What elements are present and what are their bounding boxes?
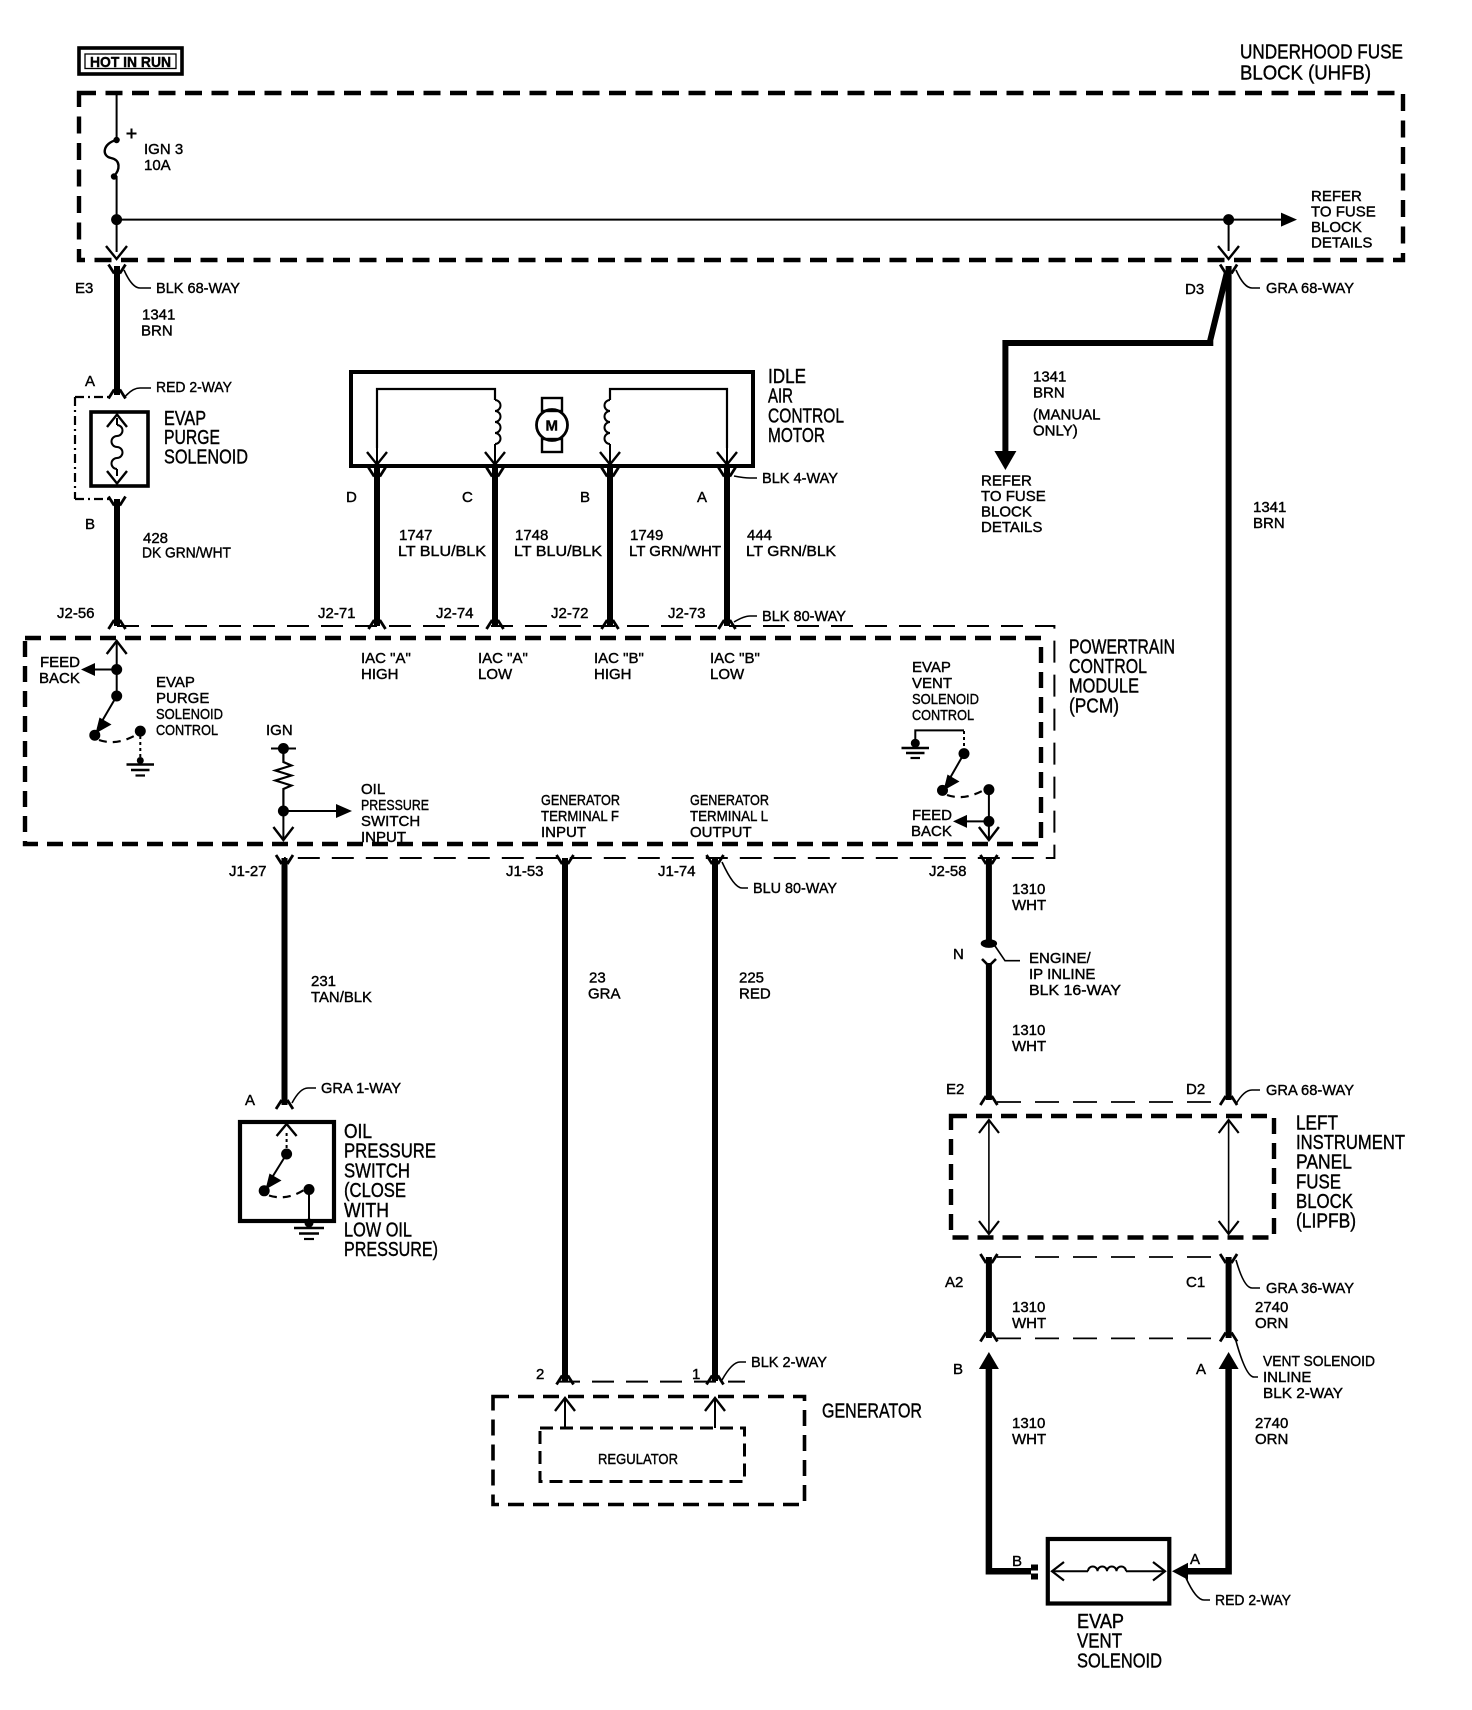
evap vent solenoid coil xyxy=(1052,1562,1165,1581)
svg-text:BRN: BRN xyxy=(1253,515,1285,532)
svg-text:A: A xyxy=(245,1092,255,1109)
wire A (444) xyxy=(724,466,730,626)
svg-text:GRA 36-WAY: GRA 36-WAY xyxy=(1266,1280,1354,1297)
wire fuse to junction xyxy=(116,176,118,252)
connector A (GRA 1-WAY) mark xyxy=(245,1080,401,1109)
svg-text:BLOCK: BLOCK xyxy=(1311,219,1362,236)
svg-text:D: D xyxy=(346,489,357,506)
svg-text:(MANUAL: (MANUAL xyxy=(1033,407,1101,424)
svg-text:444: 444 xyxy=(747,527,772,544)
svg-text:WHT: WHT xyxy=(1012,1038,1046,1055)
svg-text:BRN: BRN xyxy=(1033,385,1065,402)
wire 1310 WHT B to evap vent solenoid xyxy=(979,1352,1046,1580)
BLK 2-WAY label xyxy=(722,1362,746,1380)
ground (evap purge control) xyxy=(127,757,155,776)
svg-text:E2: E2 xyxy=(946,1081,964,1098)
wire from box top to fuse xyxy=(116,94,118,140)
svg-text:(LIPFB): (LIPFB) xyxy=(1296,1211,1356,1233)
svg-text:BLK 16-WAY: BLK 16-WAY xyxy=(1029,982,1121,999)
svg-text:225: 225 xyxy=(739,970,764,987)
wire 231 TAN/BLK J1-27 to oil pressure switch xyxy=(282,858,288,1105)
svg-text:FEED: FEED xyxy=(912,807,952,824)
generator connector row line xyxy=(558,1381,745,1383)
evap purge solenoid coil xyxy=(107,415,127,484)
wire 225 RED J1-74 to generator xyxy=(712,858,718,1381)
svg-text:CONTROL: CONTROL xyxy=(768,405,844,427)
svg-text:BACK: BACK xyxy=(39,670,80,687)
evap vent solenoid label xyxy=(1077,1611,1162,1672)
svg-text:1310: 1310 xyxy=(1012,881,1045,898)
IAC motor M xyxy=(537,398,568,452)
svg-text:B: B xyxy=(953,1361,963,1378)
svg-text:VENT: VENT xyxy=(912,675,952,692)
svg-text:EVAP: EVAP xyxy=(912,659,951,676)
svg-text:23: 23 xyxy=(589,970,606,987)
regulator dashed box xyxy=(540,1428,745,1482)
svg-text:BLOCK (UHFB): BLOCK (UHFB) xyxy=(1240,63,1371,85)
svg-text:231: 231 xyxy=(311,973,336,990)
node junction left xyxy=(111,214,122,225)
svg-text:1310: 1310 xyxy=(1012,1299,1045,1316)
svg-text:VENT SOLENOID: VENT SOLENOID xyxy=(1263,1353,1375,1370)
svg-text:SOLENOID: SOLENOID xyxy=(1077,1650,1162,1672)
svg-text:1747: 1747 xyxy=(399,527,432,544)
svg-text:GENERATOR: GENERATOR xyxy=(690,792,769,809)
svg-text:LT BLU/BLK: LT BLU/BLK xyxy=(514,543,602,560)
evap vent solenoid control label xyxy=(912,659,979,724)
connector B/A marks and row (vent solenoid inline) xyxy=(953,1333,1375,1403)
svg-text:BLK 2-WAY: BLK 2-WAY xyxy=(1263,1385,1343,1402)
svg-text:GENERATOR: GENERATOR xyxy=(822,1401,922,1423)
svg-text:TERMINAL F: TERMINAL F xyxy=(541,808,619,825)
svg-text:ORN: ORN xyxy=(1255,1315,1288,1332)
svg-text:IDLE: IDLE xyxy=(768,366,806,388)
svg-text:CONTROL: CONTROL xyxy=(156,722,218,739)
connector A mark xyxy=(85,373,232,399)
svg-text:1341: 1341 xyxy=(1033,369,1066,386)
svg-text:E3: E3 xyxy=(75,280,93,297)
svg-text:GRA 68-WAY: GRA 68-WAY xyxy=(1266,280,1354,297)
LIPFB dashed box xyxy=(951,1116,1274,1238)
svg-text:D3: D3 xyxy=(1185,281,1204,298)
svg-text:UNDERHOOD FUSE: UNDERHOOD FUSE xyxy=(1240,42,1403,64)
svg-text:BLK 4-WAY: BLK 4-WAY xyxy=(762,470,838,487)
PCM label xyxy=(1069,637,1175,718)
vent feedback node xyxy=(911,790,999,840)
idle air control motor box xyxy=(351,372,753,466)
connector E3 mark xyxy=(75,265,240,298)
wire 23 GRA J1-53 to generator xyxy=(562,858,568,1381)
svg-text:INPUT: INPUT xyxy=(361,829,406,846)
wire 2740 ORN C1 to A xyxy=(1226,1257,1232,1338)
dash-dot bracket around evap purge solenoid xyxy=(75,397,110,499)
svg-text:(PCM): (PCM) xyxy=(1069,695,1119,717)
LIPFB double arrow right xyxy=(1219,1120,1239,1234)
wire 2740 ORN A to evap vent solenoid xyxy=(1172,1352,1288,1580)
svg-text:BACK: BACK xyxy=(911,823,952,840)
wire C (1748) xyxy=(492,466,498,626)
svg-text:A: A xyxy=(697,489,707,506)
svg-text:IP INLINE: IP INLINE xyxy=(1029,966,1095,983)
svg-text:HIGH: HIGH xyxy=(361,666,399,683)
svg-text:2: 2 xyxy=(536,1366,544,1383)
svg-text:BLK 2-WAY: BLK 2-WAY xyxy=(751,1354,827,1371)
svg-text:ENGINE/: ENGINE/ xyxy=(1029,950,1092,967)
evap vent solenoid box xyxy=(1048,1539,1170,1604)
svg-text:EVAP: EVAP xyxy=(156,674,195,691)
svg-text:(CLOSE: (CLOSE xyxy=(344,1180,406,1202)
IAC label xyxy=(768,366,844,447)
wire 428 DK GRN/WHT xyxy=(114,499,120,626)
svg-text:J2-71: J2-71 xyxy=(318,605,356,622)
svg-text:IAC "A": IAC "A" xyxy=(478,650,528,667)
svg-text:LOW: LOW xyxy=(710,666,745,683)
svg-text:DETAILS: DETAILS xyxy=(981,519,1042,536)
wire 1341 BRN E3 to A xyxy=(114,266,120,395)
fuse IGN 3 10A xyxy=(105,129,183,180)
svg-text:MOTOR: MOTOR xyxy=(768,425,825,447)
refer to fuse block details text (right) xyxy=(1311,188,1376,252)
svg-text:SOLENOID: SOLENOID xyxy=(164,446,248,468)
evap purge solenoid control label xyxy=(156,674,223,739)
svg-text:RED: RED xyxy=(739,986,771,1003)
horizontal wire across UHFB xyxy=(117,219,1229,221)
svg-text:J1-74: J1-74 xyxy=(658,863,696,880)
connector marks generator row xyxy=(557,1376,724,1385)
svg-text:A2: A2 xyxy=(945,1274,963,1291)
svg-text:REGULATOR: REGULATOR xyxy=(598,1451,678,1468)
svg-text:J2-73: J2-73 xyxy=(668,605,706,622)
svg-text:REFER: REFER xyxy=(1311,188,1362,205)
svg-text:ORN: ORN xyxy=(1255,1431,1288,1448)
wire 1310 WHT A2 to B xyxy=(986,1257,992,1338)
branch 1341 BRN (manual only) xyxy=(994,272,1227,470)
hot-in-run header box xyxy=(79,48,182,74)
svg-text:J1-27: J1-27 xyxy=(229,863,267,880)
IGN pullup xyxy=(266,722,352,840)
J2 connector marks on row xyxy=(369,620,736,629)
svg-text:BRN: BRN xyxy=(141,323,173,340)
refer to fuse block details (manual branch) xyxy=(981,473,1046,537)
UHFB label xyxy=(1240,42,1403,85)
connector C mark xyxy=(462,468,504,507)
inline connector N (ENGINE/IP INLINE) xyxy=(953,939,1121,999)
generator terminal L output label xyxy=(690,792,769,841)
svg-text:DETAILS: DETAILS xyxy=(1311,235,1372,252)
LIPFB label xyxy=(1296,1113,1405,1233)
svg-text:CONTROL: CONTROL xyxy=(912,707,974,724)
RED 2-WAY label xyxy=(1186,1578,1210,1600)
svg-text:HIGH: HIGH xyxy=(594,666,632,683)
svg-text:PRESSURE: PRESSURE xyxy=(344,1141,436,1163)
wire 1310 WHT inline to E2 xyxy=(986,963,992,1100)
svg-text:FEED: FEED xyxy=(40,654,80,671)
svg-text:LOW OIL: LOW OIL xyxy=(344,1220,412,1242)
svg-text:1749: 1749 xyxy=(630,527,663,544)
oil pressure switch input label xyxy=(361,781,429,846)
svg-text:WHT: WHT xyxy=(1012,1431,1046,1448)
svg-text:J2-56: J2-56 xyxy=(57,605,95,622)
svg-text:LT BLU/BLK: LT BLU/BLK xyxy=(398,543,486,560)
node junction right xyxy=(1223,214,1234,225)
svg-text:VENT: VENT xyxy=(1077,1631,1122,1653)
svg-text:INPUT: INPUT xyxy=(541,824,586,841)
svg-text:RED 2-WAY: RED 2-WAY xyxy=(1215,1592,1291,1609)
svg-text:EVAP: EVAP xyxy=(1077,1611,1124,1633)
svg-text:OUTPUT: OUTPUT xyxy=(690,824,752,841)
svg-text:B: B xyxy=(85,516,95,533)
connector A mark + BLK 4-WAY xyxy=(697,468,838,507)
svg-text:2740: 2740 xyxy=(1255,1299,1288,1316)
BLK 80-WAY label xyxy=(734,616,757,622)
connector J2-56 mark xyxy=(109,620,126,629)
svg-text:TO FUSE: TO FUSE xyxy=(981,488,1046,505)
ground (evap vent control) xyxy=(902,739,930,758)
svg-text:A: A xyxy=(1196,1361,1206,1378)
IAC channel labels xyxy=(361,650,760,683)
svg-text:BLOCK: BLOCK xyxy=(981,504,1032,521)
svg-text:10A: 10A xyxy=(144,157,171,174)
svg-text:C: C xyxy=(462,489,473,506)
svg-text:IGN 3: IGN 3 xyxy=(144,141,183,158)
svg-text:GRA 68-WAY: GRA 68-WAY xyxy=(1266,1082,1354,1099)
connector E2/D2 marks and row xyxy=(946,1081,1354,1105)
svg-text:J1-53: J1-53 xyxy=(506,863,544,880)
svg-text:1310: 1310 xyxy=(1012,1022,1045,1039)
svg-text:WHT: WHT xyxy=(1012,897,1046,914)
svg-text:J2-74: J2-74 xyxy=(436,605,474,622)
connector B mark xyxy=(85,497,126,534)
svg-text:M: M xyxy=(546,418,559,435)
arrow right refer to fuse block xyxy=(1229,219,1283,221)
svg-text:PURGE: PURGE xyxy=(156,690,209,707)
svg-text:TO FUSE: TO FUSE xyxy=(1311,204,1376,221)
svg-text:WITH: WITH xyxy=(344,1200,389,1222)
evap vent solenoid control switch xyxy=(915,730,994,797)
J2 connector row line (wraps around PCM right side) xyxy=(117,626,1054,858)
oil pressure switch box xyxy=(240,1122,334,1221)
wire B (1749) xyxy=(607,466,613,626)
svg-text:GENERATOR: GENERATOR xyxy=(541,792,620,809)
evap purge solenoid box xyxy=(91,412,148,486)
svg-text:J2-72: J2-72 xyxy=(551,605,589,622)
svg-text:INLINE: INLINE xyxy=(1263,1369,1311,1386)
svg-text:ONLY): ONLY) xyxy=(1033,423,1078,440)
svg-text:A: A xyxy=(85,373,95,390)
svg-text:IGN: IGN xyxy=(266,722,293,739)
connector D3 mark xyxy=(1185,265,1354,299)
evap purge solenoid label xyxy=(164,408,248,468)
PCM dashed box xyxy=(25,638,1041,844)
svg-text:1341: 1341 xyxy=(1253,499,1286,516)
svg-text:BLU 80-WAY: BLU 80-WAY xyxy=(753,880,837,897)
svg-text:B: B xyxy=(1012,1553,1022,1570)
svg-text:RED 2-WAY: RED 2-WAY xyxy=(156,379,232,396)
underhood fuse block UHFB dashed box xyxy=(79,93,1403,260)
BLU 80-WAY label xyxy=(722,862,748,888)
svg-text:PRESSURE): PRESSURE) xyxy=(344,1239,438,1261)
svg-text:2740: 2740 xyxy=(1255,1415,1288,1432)
svg-text:TAN/BLK: TAN/BLK xyxy=(311,989,372,1006)
svg-text:IAC "B": IAC "B" xyxy=(594,650,644,667)
svg-text:BLK 80-WAY: BLK 80-WAY xyxy=(762,608,846,625)
svg-text:GRA: GRA xyxy=(588,986,621,1003)
oil pressure switch label xyxy=(344,1121,438,1261)
svg-text:J2-58: J2-58 xyxy=(929,863,967,880)
wire 1341 BRN D3 down to D2 xyxy=(1226,266,1232,1100)
LIPFB double arrow left xyxy=(979,1120,999,1234)
svg-text:SWITCH: SWITCH xyxy=(344,1160,410,1182)
svg-text:TERMINAL L: TERMINAL L xyxy=(690,808,768,825)
svg-text:GRA 1-WAY: GRA 1-WAY xyxy=(321,1080,401,1097)
connector D mark xyxy=(346,468,386,507)
wire D (1747) xyxy=(374,466,380,626)
generator dashed box xyxy=(493,1397,805,1505)
svg-text:WHT: WHT xyxy=(1012,1315,1046,1332)
svg-text:LOW: LOW xyxy=(478,666,513,683)
svg-text:N: N xyxy=(953,946,964,963)
ground (oil pressure switch) xyxy=(294,1219,324,1240)
svg-text:1: 1 xyxy=(692,1366,700,1383)
svg-text:D2: D2 xyxy=(1186,1081,1205,1098)
svg-text:C1: C1 xyxy=(1186,1274,1205,1291)
svg-text:1341: 1341 xyxy=(142,307,175,324)
svg-text:A: A xyxy=(1190,1551,1200,1568)
svg-text:B: B xyxy=(580,489,590,506)
svg-text:LT GRN/WHT: LT GRN/WHT xyxy=(629,543,721,560)
IAC left winding xyxy=(367,389,505,465)
generator arrows to regulator xyxy=(555,1398,725,1428)
svg-text:OIL: OIL xyxy=(361,781,385,798)
evap purge solenoid control switch xyxy=(89,670,146,759)
connector marks bottom row xyxy=(276,855,997,864)
oil pressure switch internals xyxy=(259,1124,315,1221)
svg-text:LT GRN/BLK: LT GRN/BLK xyxy=(746,543,836,560)
svg-text:SWITCH: SWITCH xyxy=(361,813,420,830)
connector A2/C1 marks and row xyxy=(945,1254,1354,1297)
svg-text:REFER: REFER xyxy=(981,473,1032,490)
arrow down to D3 xyxy=(1228,220,1230,251)
svg-text:HOT IN RUN: HOT IN RUN xyxy=(90,54,171,71)
svg-text:DK GRN/WHT: DK GRN/WHT xyxy=(142,545,231,562)
evap purge feedback node xyxy=(39,641,127,687)
arrow down to E3 xyxy=(106,246,127,259)
svg-text:IAC "B": IAC "B" xyxy=(710,650,760,667)
wire 1310 WHT J2-58 to inline xyxy=(986,858,992,940)
svg-text:OIL: OIL xyxy=(344,1121,372,1143)
svg-text:SOLENOID: SOLENOID xyxy=(912,691,979,708)
svg-text:1748: 1748 xyxy=(515,527,548,544)
svg-text:1310: 1310 xyxy=(1012,1415,1045,1432)
svg-text:AIR: AIR xyxy=(768,386,793,408)
generator terminal F input label xyxy=(541,792,620,841)
svg-text:PRESSURE: PRESSURE xyxy=(361,797,429,814)
svg-text:SOLENOID: SOLENOID xyxy=(156,706,223,723)
svg-text:IAC "A": IAC "A" xyxy=(361,650,411,667)
connector B mark xyxy=(580,468,619,507)
svg-text:BLK 68-WAY: BLK 68-WAY xyxy=(156,280,240,297)
IAC right winding xyxy=(600,389,737,465)
